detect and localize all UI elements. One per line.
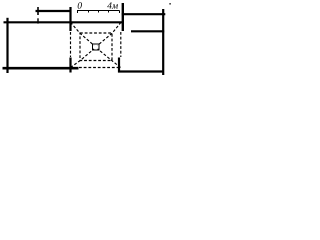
roof hip diagonal bottom-left xyxy=(71,49,95,68)
roof hip diagonal bottom-right xyxy=(98,49,121,68)
scale label 0 xyxy=(78,2,82,8)
roof apex square xyxy=(93,44,100,50)
roof outline right edge dashed xyxy=(120,32,122,57)
right room interior wall xyxy=(131,30,164,32)
porch top wall xyxy=(36,10,71,12)
left pier wall lower xyxy=(69,58,71,73)
bottom wall xyxy=(3,67,79,70)
scale bar tick 3 xyxy=(108,11,110,13)
scan speck top-right xyxy=(169,3,171,5)
roof outline left edge dashed xyxy=(70,32,72,57)
porch opening tick lower xyxy=(37,18,39,23)
roof hip diagonal top-right xyxy=(98,22,121,45)
scale label 4m xyxy=(107,2,112,8)
right pier wall upper xyxy=(122,3,124,31)
scale bar tick 1 xyxy=(88,11,90,13)
roof outline bottom edge dashed xyxy=(79,67,118,69)
roof middle tier dashed square xyxy=(80,33,112,61)
left pier wall upper xyxy=(69,7,71,31)
scale bar line xyxy=(77,10,120,12)
bottom annex wall xyxy=(118,70,163,72)
roof hip diagonal top-left xyxy=(71,22,95,45)
right pier wall lower xyxy=(118,58,120,73)
scale bar tick 2 xyxy=(98,11,100,13)
porch opening tick upper xyxy=(37,7,39,15)
left wall xyxy=(6,18,8,73)
right room top wall xyxy=(122,13,166,15)
right room right wall xyxy=(162,9,164,75)
main top wall xyxy=(4,21,125,23)
scale bar tick 4 xyxy=(119,11,121,14)
scale bar tick 0 xyxy=(77,11,79,14)
